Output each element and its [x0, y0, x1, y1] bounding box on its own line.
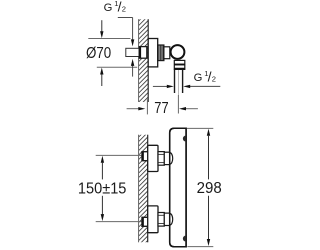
svg-text:2: 2 [212, 74, 216, 83]
svg-text:G: G [194, 72, 203, 84]
svg-text:Ø70: Ø70 [86, 45, 111, 62]
svg-text:G: G [104, 2, 113, 14]
svg-text:2: 2 [122, 4, 126, 13]
svg-text:298: 298 [197, 180, 222, 197]
svg-text:150±15: 150±15 [78, 181, 127, 198]
svg-text:77: 77 [154, 100, 168, 117]
